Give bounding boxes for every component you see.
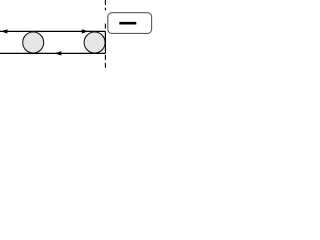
node left arrow (points left) [1,29,8,33]
node rounded box [108,13,152,34]
wire bottom tape line [0,52,105,54]
node middle-right arrow (points right) [82,29,89,33]
node minus bar [119,22,136,25]
roller left circle [23,32,44,53]
node dashed reference line upper dashes [104,0,106,29]
node dashed reference line lower dashes [104,55,106,68]
wire vertical tape tangent segment [104,31,106,53]
roller right circle [84,32,105,53]
wire top tape line [0,30,105,32]
node bottom arrow (points left) [54,51,61,55]
